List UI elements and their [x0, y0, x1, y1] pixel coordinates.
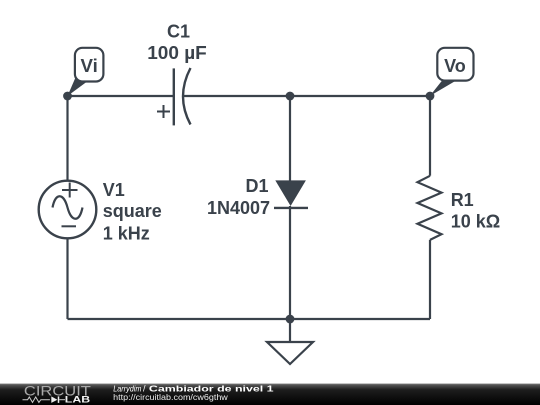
svg-text:10 kΩ: 10 kΩ — [451, 212, 500, 232]
wire left vertical lower (V1 bottom to bottom rail) — [66, 239, 68, 320]
node flag Vi box — [75, 48, 104, 82]
ground symbol triangle — [267, 342, 313, 364]
node diode-top junction dot — [286, 92, 295, 101]
svg-text:V1: V1 — [103, 180, 125, 200]
footer logo diode wire — [59, 399, 65, 401]
wire resistor branch lower (R1 to bottom rail) — [429, 240, 431, 319]
capacitor C1 left plate — [173, 68, 175, 125]
node Vi junction dot — [63, 92, 72, 101]
V1 sine wave — [53, 196, 83, 219]
node flag Vo tail — [430, 80, 457, 96]
diode D1 cathode bar — [274, 207, 308, 209]
svg-text:D1: D1 — [245, 176, 268, 196]
V1 minus sign — [62, 225, 77, 227]
svg-text:LAB: LAB — [65, 395, 91, 405]
svg-text:square: square — [103, 201, 162, 221]
svg-text:100 µF: 100 µF — [147, 43, 207, 63]
diode D1 triangle — [275, 180, 306, 206]
node flag Vi tail — [68, 78, 88, 97]
capacitor C1 polarity plus — [157, 105, 170, 118]
svg-text:1 kHz: 1 kHz — [103, 223, 150, 243]
svg-text:Vi: Vi — [81, 56, 98, 76]
svg-text:http://circuitlab.com/cw6gthw: http://circuitlab.com/cw6gthw — [113, 392, 228, 402]
wire top-right horizontal (C1 right plate to Vo node) — [184, 95, 431, 97]
wire bottom rail horizontal — [68, 318, 431, 320]
footer logo diode bar — [58, 396, 60, 403]
footer bar — [0, 384, 540, 405]
node diode-bottom junction dot — [286, 315, 295, 324]
svg-text:1N4007: 1N4007 — [207, 198, 270, 218]
wire diode branch lower (D1 cathode to bottom rail) — [289, 206, 291, 319]
node Vo junction dot — [426, 92, 435, 101]
svg-text:R1: R1 — [451, 190, 474, 210]
resistor R1 zigzag — [418, 176, 442, 240]
wire resistor branch upper (top rail to R1) — [429, 96, 431, 176]
voltage source V1 circle — [39, 181, 97, 239]
svg-text:C1: C1 — [167, 21, 190, 41]
wire left vertical upper (Vi node to V1 top) — [66, 96, 68, 181]
wire ground stub — [289, 319, 291, 342]
node flag Vo box — [437, 48, 473, 81]
capacitor C1 right curved plate — [183, 68, 191, 125]
wire diode branch upper (top rail to D1 anode) — [289, 96, 291, 181]
svg-text:Vo: Vo — [444, 56, 466, 76]
wire top-left horizontal (Vi node to C1 left plate) — [68, 95, 174, 97]
V1 plus sign — [62, 183, 78, 198]
footer logo resistor squiggle — [23, 397, 50, 402]
footer logo diode symbol — [51, 396, 57, 403]
